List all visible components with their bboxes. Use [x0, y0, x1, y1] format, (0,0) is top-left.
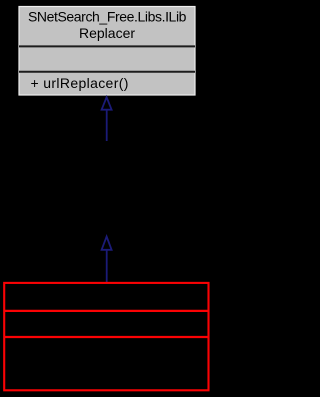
inheritance arrow lower: shaft (wire) [106, 250, 108, 284]
method label: + urlReplacer() [31, 75, 129, 91]
class name label line 1: SNetSearch_Free.Libs.ILib [28, 8, 187, 24]
inheritance arrow upper: shaft (wire) [106, 110, 108, 141]
red box separator line 1 [4, 310, 208, 312]
svg-text:Replacer: Replacer [79, 25, 135, 41]
red box separator line 2 [4, 336, 208, 338]
separator line 1 (below class name) [19, 45, 195, 47]
svg-text:+ urlReplacer(): + urlReplacer() [31, 75, 129, 91]
class name label line 2: Replacer [79, 25, 135, 41]
highlighted current-class node (red box) [4, 283, 208, 390]
inheritance arrow upper: hollow arrowhead [102, 97, 112, 110]
svg-text:SNetSearch_Free.Libs.ILib: SNetSearch_Free.Libs.ILib [28, 8, 187, 24]
inheritance arrow lower: hollow arrowhead [102, 237, 112, 250]
separator line 2 (below attributes) [19, 71, 195, 73]
class box SNetSearch_Free.Libs.ILibReplacer [19, 7, 195, 96]
